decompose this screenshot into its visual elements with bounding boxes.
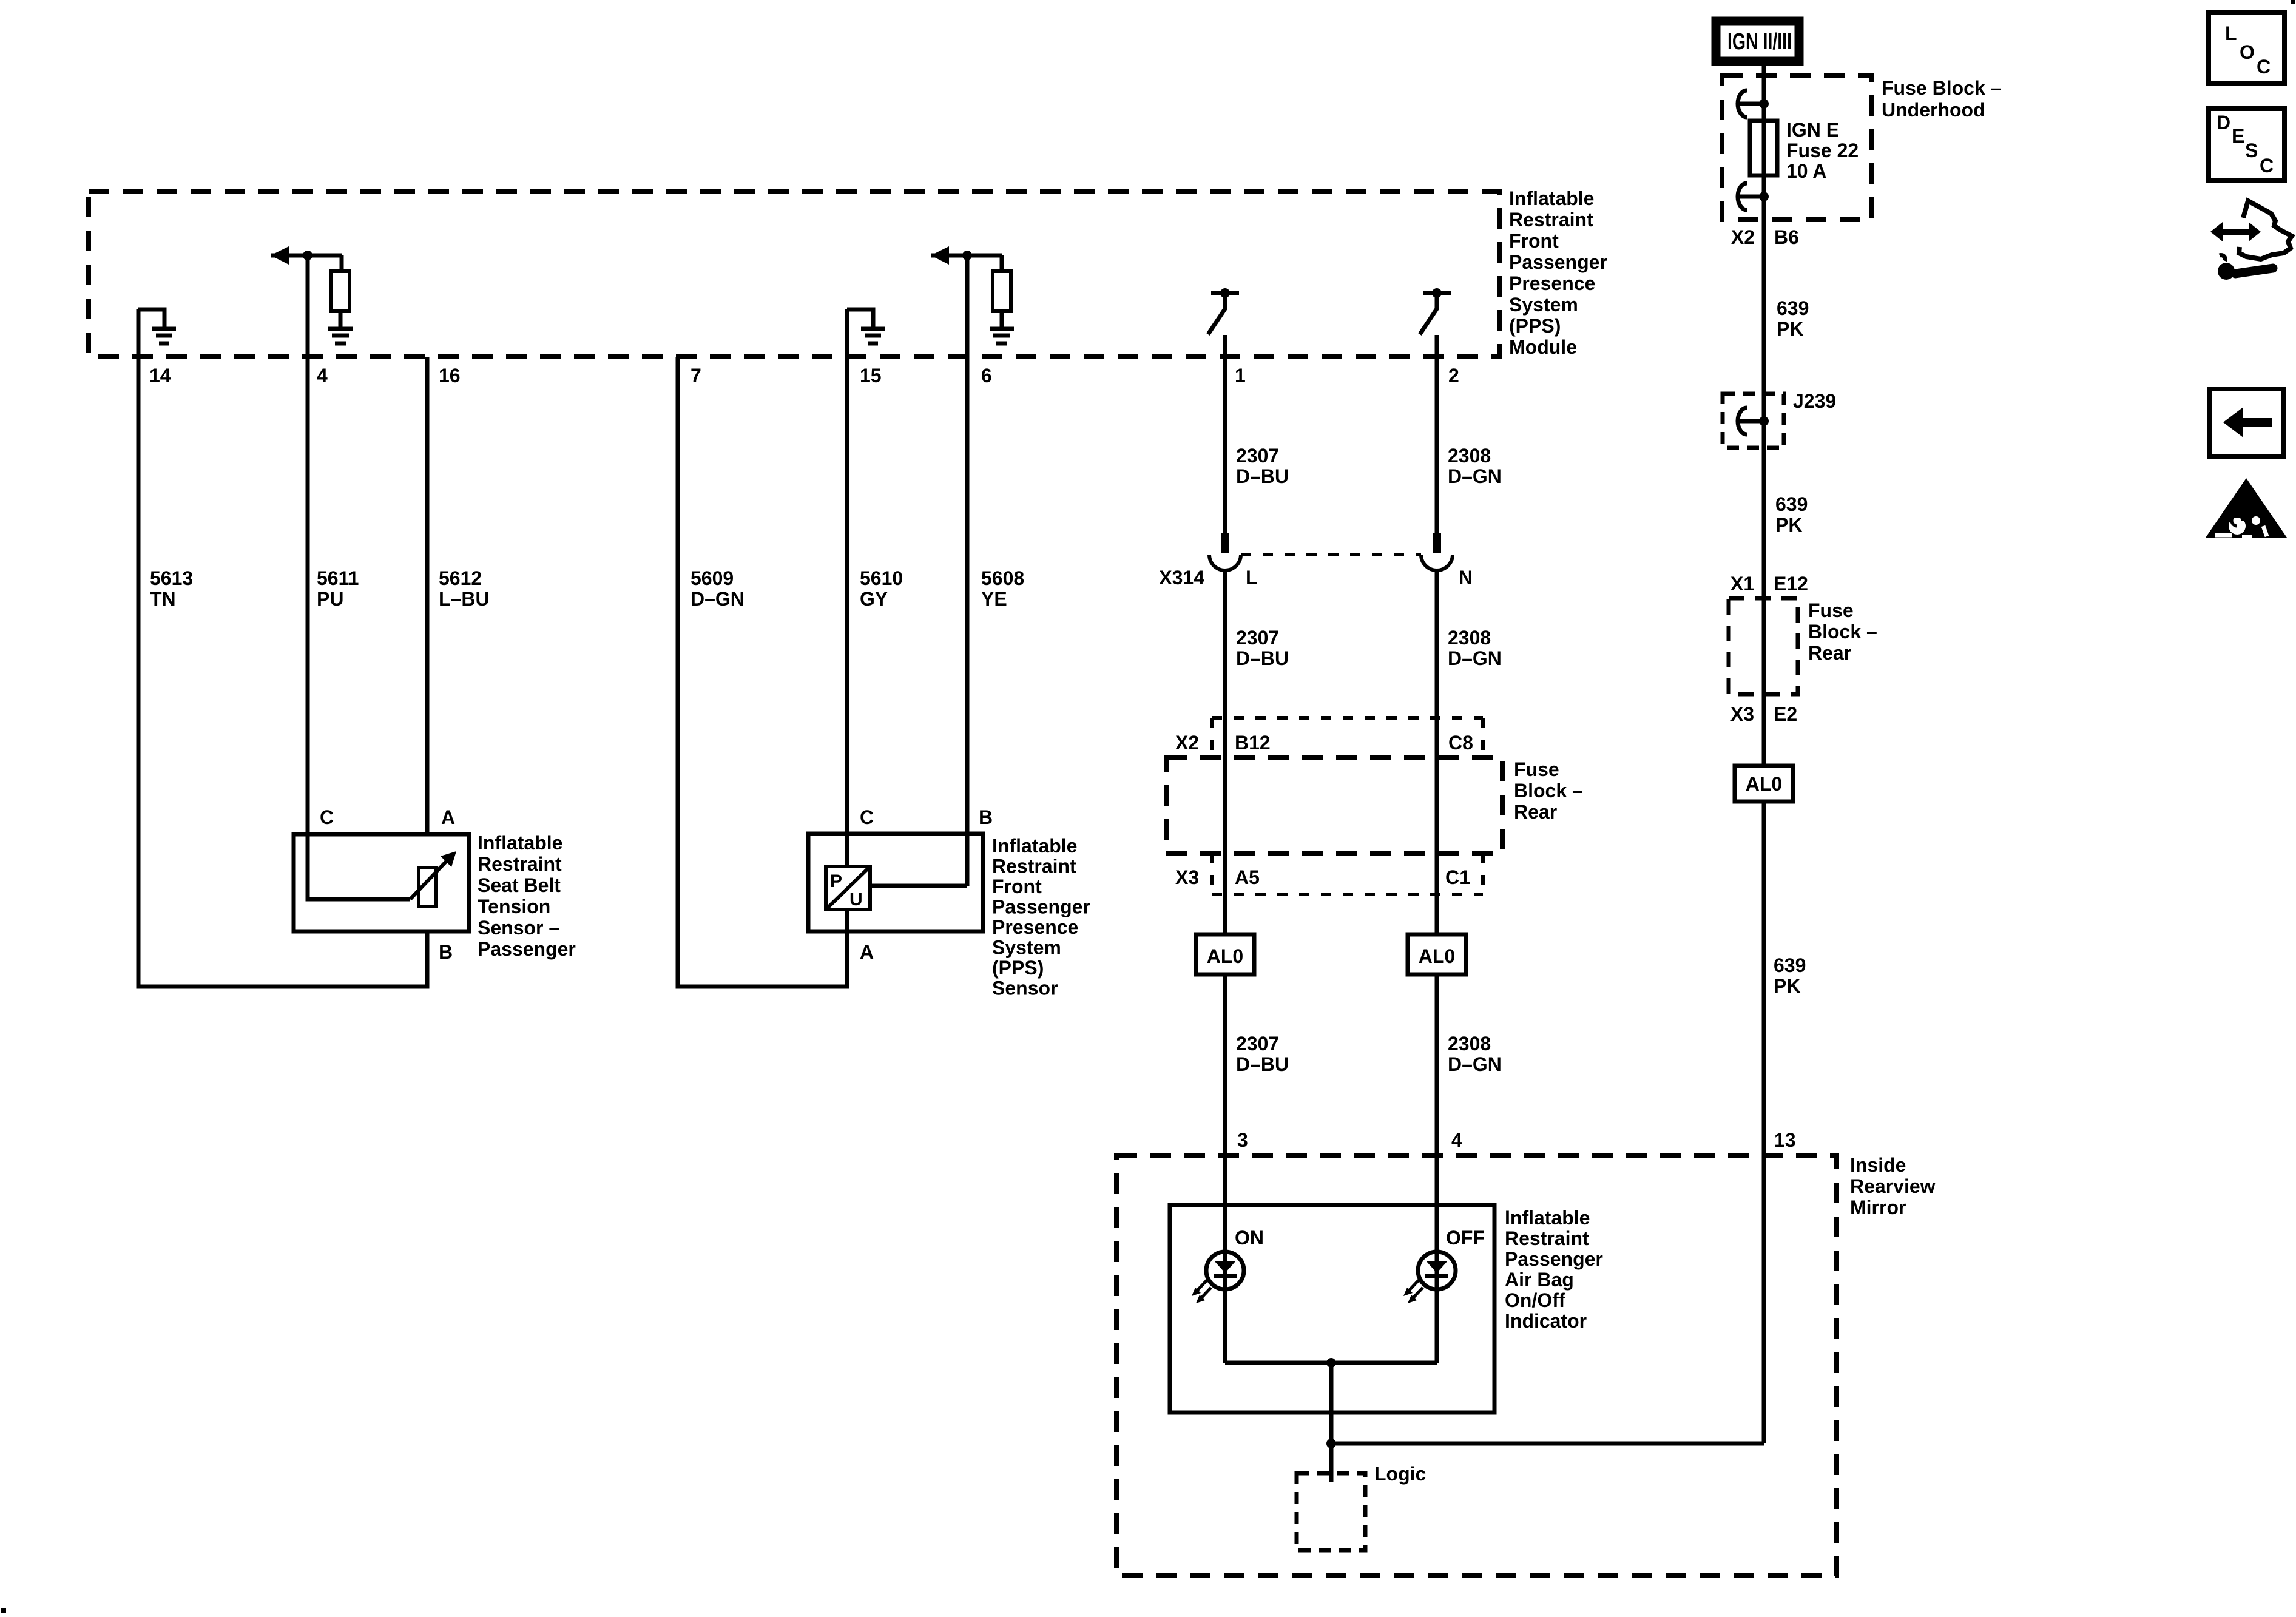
connector X3 dotted row [1212,853,1483,894]
P/U transducer U2 [826,866,870,910]
svg-text:C: C [860,806,874,828]
repair icon double arrow [2210,222,2261,241]
fuse IGN E F1 [1750,121,1777,175]
svg-text:C: C [2257,56,2271,78]
internal arrow + resistor R2 + ground at pin 6 [931,246,1014,343]
svg-text:X2: X2 [1731,226,1755,248]
svg-text:ON: ON [1235,1227,1264,1249]
wire pin 1 to connector [1223,335,1227,533]
wire pin 2 to connector [1435,335,1439,533]
SIR caution triangle icon [2206,478,2287,538]
wire N to fuse block rear [1435,570,1439,934]
svg-text:O: O [2240,41,2255,63]
page corner mark top right [2291,0,2295,4]
ground G1 inside module at pin 14 [138,309,176,343]
internal arrow + resistor R1 + ground at pin 4 [271,246,353,343]
connector terminal hook J239 [1738,408,1769,434]
svg-text:7: 7 [690,365,701,387]
back arrow icon box [2210,389,2284,456]
LED D2 OFF [1418,1252,1456,1289]
svg-text:1: 1 [1235,365,1246,387]
wire 5611 PU pin 4 to sensor C [306,255,310,834]
LED D1 ON [1206,1252,1244,1289]
svg-text:E12: E12 [1774,573,1808,595]
LED D1 emission arrows [1192,1280,1211,1303]
wire P/U output to B [870,884,967,888]
svg-text:3: 3 [1237,1129,1248,1151]
svg-text:X3: X3 [1175,866,1199,888]
center tap wire to logic [1329,1363,1334,1482]
svg-text:C: C [320,806,334,828]
svg-text:A: A [441,806,455,828]
svg-text:Logic: Logic [1374,1463,1426,1485]
svg-text:B6: B6 [1774,226,1799,248]
svg-text:A5: A5 [1235,866,1260,888]
svg-text:15: 15 [860,365,882,387]
fuse block underhood dashed box B5 [1722,75,1872,220]
X314 dotted connector line [1241,553,1421,556]
wire 5612 L-BU pin 16 to sensor A [425,357,430,834]
svg-text:X1: X1 [1730,573,1754,595]
wire 5609 D-GN pin 7 to sensor A return [678,357,847,987]
svg-text:U: U [849,890,863,910]
wire tap to pin 13 [1331,1442,1764,1446]
connector terminal hook top underhood [1738,90,1769,117]
inside rearview mirror dashed box B3 [1116,1155,1837,1576]
svg-text:B: B [439,941,453,963]
air bag on/off indicator box B4 [1170,1205,1494,1413]
svg-text:C1: C1 [1445,866,1470,888]
PPS Module dashed box U1 [89,192,1499,357]
switch S1 at pin 1 [1208,288,1239,334]
connector terminal hook bottom underhood [1738,183,1769,210]
repair icon panel outline [2239,201,2292,259]
svg-text:J239: J239 [1793,390,1836,412]
svg-text:14: 14 [149,365,171,387]
svg-text:E: E [2232,125,2244,147]
PPS sensor box B2 [808,834,983,931]
logic dashed box U3 [1297,1473,1365,1550]
svg-text:4: 4 [1451,1129,1462,1151]
fuse block rear dashed box right B6 [1729,598,1798,694]
svg-text:2: 2 [1448,365,1459,387]
svg-text:X3: X3 [1730,703,1754,725]
svg-text:E2: E2 [1774,703,1797,725]
seat belt tension sensor box B1 [294,834,469,931]
svg-text:OFF: OFF [1446,1227,1485,1249]
svg-text:A: A [860,941,874,963]
connector X314 terminal L [1209,533,1241,570]
LOC icon box [2209,13,2284,84]
svg-text:6: 6 [981,365,992,387]
svg-text:AL0: AL0 [1207,945,1243,967]
svg-text:AL0: AL0 [1419,945,1455,967]
svg-text:Fuse Block –Underhood: Fuse Block –Underhood [1882,77,2001,121]
potentiometer arrow [410,860,447,899]
connector X2 dotted row [1212,718,1483,757]
LED cathode rail wire [1225,1361,1437,1365]
potentiometer resistor element [419,868,436,906]
svg-text:L: L [1246,567,1258,589]
IGN II/III power feed box [1716,21,1799,61]
svg-text:N: N [1459,567,1473,589]
svg-text:5612L–BU: 5612L–BU [439,567,490,610]
svg-text:IGN II/III: IGN II/III [1727,29,1792,55]
svg-text:X314: X314 [1159,567,1204,589]
splice pack AL0 left [1196,934,1254,974]
splice J239 dotted box [1723,394,1784,448]
wire 5610 GY pin 15 to sensor C [845,309,849,866]
svg-text:13: 13 [1774,1129,1796,1151]
wire AL0 to mirror pin 13 [1762,802,1766,1443]
power wire IGN to AL0 [1762,66,1766,766]
svg-text:P: P [830,871,842,891]
wire 5613 TN pin 14 to sensor B [138,309,427,987]
connector X314 terminal N [1421,533,1453,570]
svg-text:D: D [2217,112,2230,133]
svg-text:S: S [2245,140,2258,161]
wire L to fuse block rear [1223,570,1227,934]
splice pack AL0 right column [1735,766,1793,802]
DESC icon box [2209,109,2284,181]
junction node tap [1326,1439,1336,1448]
svg-text:B: B [979,806,993,828]
potentiometer wiper wire inside sensor [308,834,410,899]
junction node rail [1326,1358,1336,1368]
LED D2 emission arrows [1403,1280,1423,1303]
wire AL0 to mirror pin 4 [1435,974,1439,1363]
svg-text:16: 16 [439,365,461,387]
svg-text:X2: X2 [1175,732,1199,754]
svg-text:AL0: AL0 [1746,773,1782,795]
svg-text:C8: C8 [1448,732,1473,754]
page corner mark bottom left [1,1608,6,1613]
repair icon wrench [2212,255,2273,280]
wire AL0 to mirror pin 3 [1223,974,1227,1363]
wire 5608 YE pin 6 to sensor B [965,255,970,886]
switch S2 at pin 2 [1420,288,1451,334]
fuse block rear dashed box center [1166,757,1502,853]
ground G2 inside module at pin 15 [847,309,885,343]
svg-text:L: L [2225,22,2237,44]
svg-text:C: C [2260,155,2274,177]
splice pack AL0 right-center [1408,934,1466,974]
svg-text:4: 4 [317,365,328,387]
svg-text:B12: B12 [1235,732,1271,754]
